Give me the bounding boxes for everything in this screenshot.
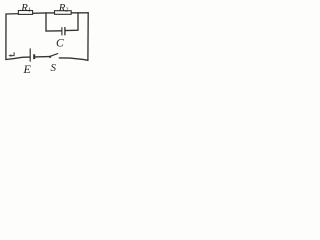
wire left vertical — [5, 14, 7, 60]
svg-text:E: E — [23, 62, 32, 76]
wire switch to right corner — [59, 58, 88, 60]
wire capacitor branch left drop — [46, 13, 61, 31]
wire top — [6, 13, 88, 14]
wire right vertical — [87, 13, 89, 61]
capacitor C plates — [62, 27, 65, 35]
battery E plates — [30, 48, 34, 61]
svg-text:C: C — [56, 37, 64, 49]
switch S — [49, 54, 58, 58]
resistor R1 — [18, 11, 32, 15]
svg-text:S: S — [51, 62, 57, 74]
wire bottom-left segment — [6, 57, 30, 59]
current arrow — [11, 52, 15, 55]
resistor R2 — [55, 11, 72, 15]
wire capacitor branch right rise — [65, 13, 78, 31]
wire battery to switch — [35, 56, 49, 58]
